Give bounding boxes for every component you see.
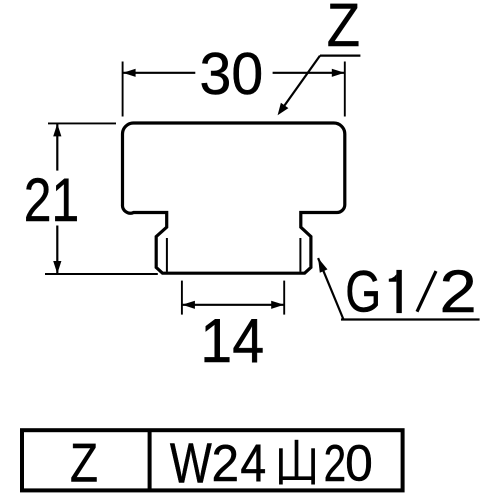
svg-text:21: 21: [24, 166, 79, 234]
svg-text:2: 2: [212, 434, 240, 492]
svg-text:W: W: [170, 431, 212, 495]
label G1/2 underline: [341, 318, 480, 320]
label G1/2 digit 1 flag: [389, 274, 397, 282]
dim 30 extension line left: [122, 62, 124, 117]
svg-text:4: 4: [240, 434, 266, 494]
label G1/2 leader: [318, 258, 343, 319]
dim 30 arrow right: [332, 69, 345, 77]
dim 21 line lower segment: [56, 226, 58, 274]
dim 30 line right segment: [273, 72, 345, 74]
svg-text:30: 30: [200, 41, 264, 107]
label G1/2 digit 1 stem: [396, 270, 401, 313]
label Z arrow: [278, 103, 289, 116]
part outline (adapter body cross-section): [122, 123, 344, 273]
thread root line left: [166, 238, 168, 272]
dim 21 extension line top: [48, 122, 116, 124]
svg-text:2: 2: [324, 434, 346, 492]
table divider: [148, 430, 152, 490]
table glyph yama 山 center stroke: [295, 440, 299, 480]
dim 14 arrow left: [182, 301, 195, 309]
dim 30 extension line right: [344, 62, 346, 117]
svg-text:0: 0: [345, 434, 373, 492]
label G1/2 arrow: [318, 258, 327, 273]
dim 14 line: [182, 304, 283, 306]
table outer border: [22, 430, 403, 490]
table glyph yama 山 right stroke: [311, 448, 315, 484]
label Z leader: [280, 56, 321, 113]
table glyph yama 山 left stroke: [279, 448, 283, 484]
dim 21 arrow down: [53, 261, 61, 274]
svg-text:G: G: [345, 259, 381, 324]
svg-text:14: 14: [200, 306, 264, 376]
dim 14 arrow right: [271, 301, 284, 309]
dim 21 line upper segment: [56, 124, 58, 171]
dim 21 arrow up: [53, 124, 61, 137]
svg-text:Z: Z: [70, 432, 98, 494]
svg-text:Z: Z: [327, 0, 360, 60]
dim 21 extension line bottom: [45, 273, 158, 275]
label Z underline: [320, 54, 360, 56]
label G1/2 slash: [417, 271, 436, 312]
thread root line right: [299, 238, 301, 272]
table glyph yama 山 bottom stroke: [279, 476, 315, 480]
dim 14 extension line right: [283, 281, 285, 315]
dim 30 arrow left: [123, 69, 136, 77]
svg-text:2: 2: [439, 257, 476, 325]
dim 14 extension line left: [181, 281, 183, 315]
dim 30 line left segment: [123, 72, 195, 74]
